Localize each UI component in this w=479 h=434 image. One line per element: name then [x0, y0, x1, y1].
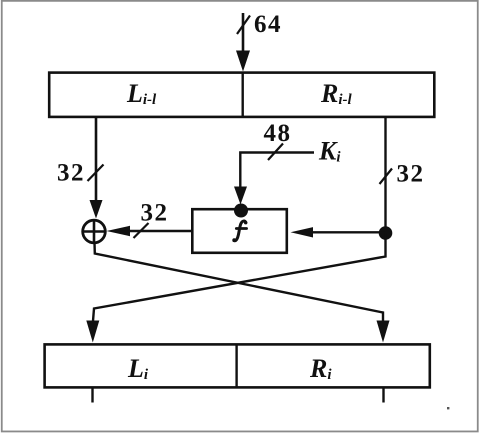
arrowhead of subkey wire — [234, 187, 247, 205]
svg-text:32: 32 — [141, 200, 169, 227]
bus-width slash on right drop — [380, 169, 393, 185]
label f — [232, 221, 247, 242]
wire stub below Li — [91, 388, 93, 403]
svg-text:32: 32 — [57, 160, 85, 187]
wire stub below Ri — [382, 388, 384, 403]
arrowhead into Ri — [377, 321, 390, 343]
wire: left 32-bit drop from Li-1 to XOR — [95, 117, 98, 201]
bus-width slash on input wire — [237, 16, 250, 35]
bus-width slash on left drop — [88, 165, 104, 182]
bus-width slash on subkey wire — [268, 144, 283, 161]
arrowhead into f from junction — [291, 227, 314, 237]
arrowhead into XOR — [90, 200, 103, 219]
register box Li-1 / Ri-1 — [49, 73, 434, 117]
svg-text:64: 64 — [254, 11, 282, 38]
junction dot on right drop — [379, 226, 393, 240]
divider of top register — [241, 73, 243, 117]
arrowhead into Li — [86, 321, 99, 343]
junction dot on top of f — [234, 204, 248, 218]
function box f — [192, 209, 286, 253]
arrowhead into XOR from f — [107, 226, 131, 236]
wire: XOR down then cross to Ri — [95, 243, 384, 321]
svg-text:48: 48 — [264, 120, 292, 147]
XOR node (circle-plus) — [83, 220, 106, 243]
wire: f output to XOR — [128, 230, 192, 232]
wire: subkey Ki into f — [240, 153, 314, 189]
wire: right 32-bit drop from Ri-1 to junction — [384, 117, 386, 233]
divider of bottom register — [235, 344, 237, 387]
register box Li / Ri — [45, 344, 430, 387]
wire: junction down then cross to Li — [93, 233, 386, 321]
wire: junction to f input — [310, 231, 386, 233]
wire: 64-bit input into top register — [242, 13, 245, 55]
svg-text:32: 32 — [397, 161, 425, 188]
bus-width slash on f output — [134, 223, 149, 238]
arrowhead into top register — [236, 51, 250, 72]
